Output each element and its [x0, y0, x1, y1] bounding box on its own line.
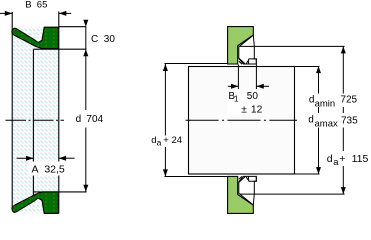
counterface wall bottom (light green) — [228, 176, 254, 213]
hub bottom extension to damax — [294, 173, 319, 175]
B1 50 +-12 label — [228, 90, 264, 115]
da + 115 label — [325, 151, 371, 166]
svg-text:amax: amax — [315, 118, 338, 129]
damin 725 dimension line — [342, 46, 344, 194]
da + 24 label — [149, 136, 183, 148]
seal heel box bottom — [249, 176, 257, 181]
shaft surface top — [164, 63, 227, 65]
seal top surface extension (725) top — [240, 45, 345, 47]
svg-text:d: d — [76, 114, 82, 125]
svg-text:d: d — [327, 153, 333, 165]
damax 735 label — [307, 113, 359, 128]
shaft surface bottom — [164, 176, 227, 178]
lip fold lines bottom — [239, 176, 248, 182]
shared arrow at bore edge (up) — [83, 49, 88, 56]
hub top extension to damax — [294, 66, 319, 68]
svg-text:50: 50 — [247, 91, 259, 102]
svg-text:C 30: C 30 — [91, 34, 115, 45]
B dimension line — [0, 12, 12, 14]
seal top surface extension (725) bottom — [240, 193, 345, 195]
svg-text:+ 24: + 24 — [163, 135, 182, 146]
bore edge bottom — [33, 191, 86, 193]
svg-text:1: 1 — [234, 95, 239, 104]
C top arrow (down, from above) — [83, 20, 88, 27]
A dimension — [17, 157, 34, 159]
B1 extension lines — [237, 65, 239, 90]
V-groove air gap top — [35, 39, 43, 43]
svg-text:+: + — [339, 153, 345, 165]
svg-text:725: 725 — [340, 94, 357, 105]
seal inner silhouette line — [32, 49, 34, 198]
svg-text:704: 704 — [86, 114, 103, 125]
top seal cross-section (dark green) — [12, 27, 58, 49]
C / d dimension vertical line — [85, 27, 87, 110]
A 32,5 label (white bg) — [29, 162, 67, 176]
damin 725 label — [307, 94, 359, 108]
v-ring seal top (white) — [239, 35, 256, 64]
counterface wall top (light green) — [228, 27, 254, 64]
v-ring seal bottom (white) — [239, 176, 256, 205]
svg-text:±: ± — [241, 104, 247, 115]
svg-text:12: 12 — [251, 104, 263, 115]
svg-text:735: 735 — [341, 115, 358, 126]
svg-text:B 65: B 65 — [25, 0, 47, 11]
svg-text:A 32,5: A 32,5 — [32, 164, 65, 176]
B1 arrows — [228, 85, 239, 87]
centerline right figure — [186, 119, 298, 121]
rubber band texture — [12, 27, 59, 214]
svg-text:a: a — [157, 137, 162, 147]
bottom seal cross-section (dark green, mirrored) — [12, 192, 58, 214]
C top extension line — [59, 26, 87, 28]
seal outer edge line right — [58, 12, 60, 214]
hub rectangle — [189, 67, 295, 175]
svg-text:amin: amin — [315, 98, 336, 109]
d bottom arrow (down) — [83, 185, 88, 192]
da+24 dimension line — [164, 64, 166, 176]
damax dimension line — [318, 66, 320, 174]
svg-text:d: d — [308, 115, 314, 126]
seal heel box top — [249, 59, 257, 64]
bore edge top — [33, 48, 86, 50]
lip fold lines top — [239, 58, 248, 64]
centerline left figure — [6, 119, 65, 121]
V-groove air gap bottom — [35, 198, 43, 202]
seal outer edge line left — [11, 12, 13, 210]
svg-text:115: 115 — [352, 153, 369, 165]
